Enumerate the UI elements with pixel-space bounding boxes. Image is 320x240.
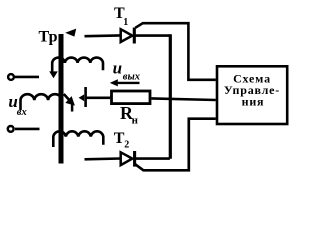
resistor Rn (load) [112,91,151,104]
control box text [224,72,280,109]
svg-text:1: 1 [123,17,128,28]
wire from bottom terminal [15,128,40,131]
input terminal top [8,74,14,80]
arrow + bar left of resistor [79,87,86,107]
wire from top terminal [15,76,39,79]
thyristor T2 [121,151,135,167]
transformer Tp secondary winding w22 (bottom) [53,131,103,147]
arrow u_vyh [110,79,140,86]
svg-text:u: u [113,58,122,77]
common cathode wire (vertical) [169,34,172,159]
transformer Tp core [59,34,64,164]
arrow on w21 start lead [49,71,58,78]
svg-text:ния: ния [242,94,265,108]
gate wire of T1 to control box [135,23,216,80]
wire to T1 anode [85,34,121,37]
svg-text:н: н [132,115,139,127]
svg-text:Т: Т [114,130,125,147]
wire to T2 anode [85,157,121,160]
gate wire of T2 to control box [135,119,216,171]
arrow at core middle [64,94,75,112]
wire T2 cathode to common node [136,157,170,160]
wire bar to resistor [86,97,111,100]
control unit box (Схема Управления) [217,66,287,124]
thyristor T1 [121,28,135,44]
svg-text:2: 2 [124,140,129,151]
input terminal bottom [8,126,14,132]
svg-text:вых: вых [123,71,140,82]
svg-text:Тр: Тр [39,29,58,46]
wire T1 cathode to common node [136,34,170,37]
transformer Tp secondary winding w21 (top) [52,58,103,72]
transformer Tp primary winding w1 [21,94,62,110]
wire resistor to control box [151,98,216,100]
arrow at core top [65,29,76,37]
